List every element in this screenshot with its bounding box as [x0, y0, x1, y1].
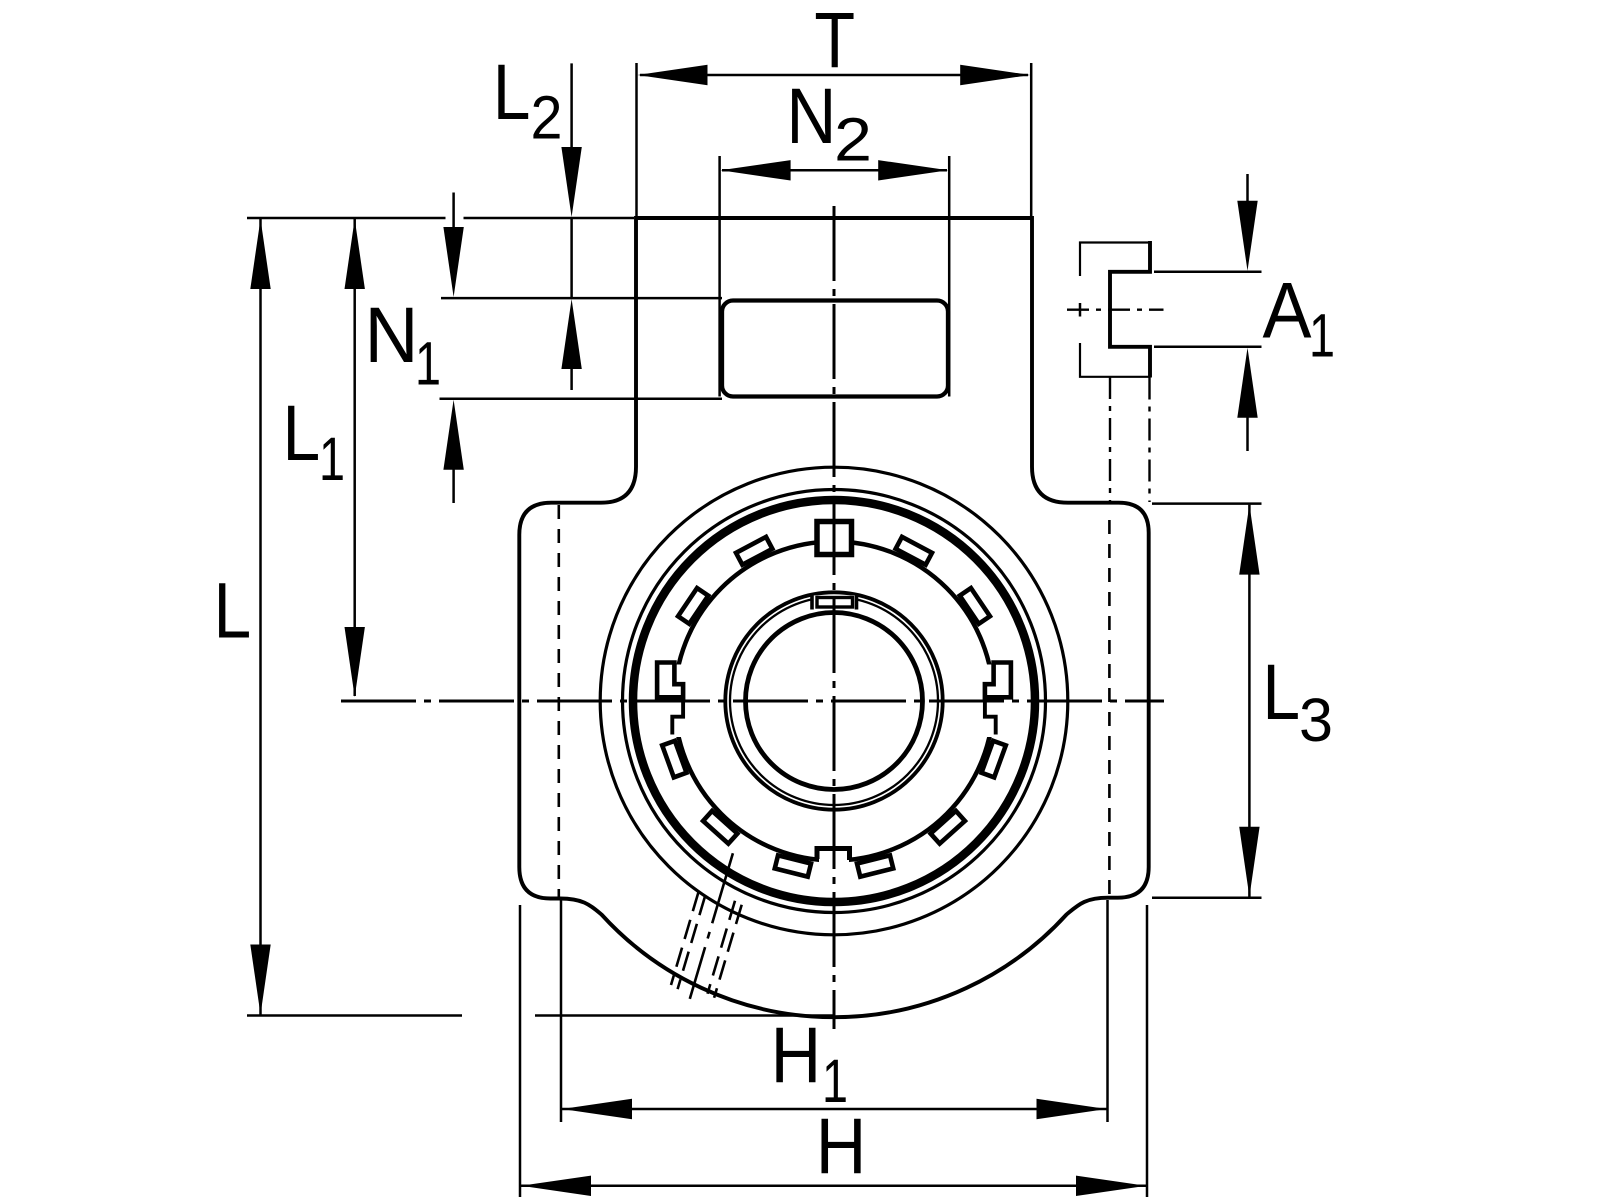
sleeve nut slot tick right: [855, 595, 859, 610]
dimension L: [250, 219, 270, 1015]
sleeve inner edge circle: [730, 597, 938, 805]
slot ledge line upper: [441, 297, 722, 300]
lock washer tooth 3 (118 deg): [736, 537, 772, 565]
locknut slot step left: [672, 697, 683, 734]
T-slot opening in top plate: [722, 301, 948, 397]
svg-text:2: 2: [834, 106, 872, 174]
adapter sleeve collar circle: [725, 592, 942, 809]
rib centerline vertical inner: [1109, 377, 1111, 502]
dimension A1: [1154, 174, 1262, 451]
hidden width line left: [557, 505, 560, 897]
guide rib cross-section thick tab: [1110, 241, 1150, 378]
slit centerline 3: [690, 853, 733, 999]
bearing outer ring (heavy): [633, 500, 1035, 902]
rib detail centerline cross tick: [1079, 303, 1082, 317]
svg-text:L: L: [493, 47, 531, 136]
locknut slot notch (bottom): [817, 849, 850, 861]
shaft bore circle: [746, 613, 923, 790]
rib detail centerline horizontal: [1067, 309, 1164, 311]
svg-text:L: L: [214, 565, 252, 654]
svg-text:N: N: [365, 290, 419, 379]
washer tab at right (3 o-clock): [985, 663, 1011, 698]
svg-text:H: H: [816, 1101, 867, 1190]
slit hidden line 1: [671, 892, 699, 985]
slit hidden line 5: [714, 905, 742, 998]
dimension T: [637, 63, 1032, 216]
sleeve nut slot box: [817, 598, 853, 608]
lock washer tooth 6 (228 deg): [703, 811, 737, 844]
dimension H: [520, 905, 1147, 1197]
svg-text:L: L: [1262, 647, 1300, 736]
lock washer tooth 9 (312 deg): [931, 811, 965, 844]
extension line bottom (L): [247, 1014, 835, 1017]
dimension N1: [443, 193, 463, 504]
slit hidden line 4: [708, 901, 736, 994]
lock washer tooth 8 (284 deg): [857, 855, 893, 876]
lock washer tooth 5 (200 deg): [662, 741, 686, 778]
svg-text:2: 2: [531, 84, 563, 152]
dimension L3: [1152, 504, 1262, 898]
dimension L2: [561, 63, 581, 390]
extension line top (L, L1): [247, 217, 634, 220]
dimension H1: [561, 900, 1108, 1122]
vertical centerline: [833, 206, 836, 1029]
lock washer tooth 7 (256 deg): [775, 855, 811, 876]
housing bore circle: [600, 467, 1068, 935]
seal ring circle: [623, 490, 1046, 913]
svg-text:3: 3: [1299, 686, 1333, 754]
washer tab at left (9 o-clock): [657, 663, 683, 698]
svg-text:1: 1: [1309, 302, 1335, 370]
rib centerline vertical outer: [1148, 378, 1150, 503]
sleeve nut slot tick left: [810, 595, 814, 610]
dimension L1: [345, 219, 365, 697]
guide rib cross-section (A1 tab detail) thin slot outline: [1080, 243, 1150, 377]
locknut slot step right: [985, 697, 996, 734]
dimension N2: [720, 156, 950, 397]
housing outline: [519, 218, 1148, 1017]
slit hidden line 2: [678, 896, 706, 989]
svg-text:N: N: [786, 71, 836, 160]
lock washer tooth 10 (340 deg): [981, 741, 1005, 778]
locknut feature erase patches: [652, 665, 1016, 867]
slot ledge line lower: [440, 397, 723, 400]
svg-text:A: A: [1263, 266, 1312, 355]
horizontal centerline: [341, 700, 1164, 703]
svg-text:1: 1: [415, 330, 441, 398]
svg-text:L: L: [283, 388, 321, 477]
lock washer tooth 1 (34 deg): [960, 588, 990, 624]
hidden width line right: [1108, 520, 1111, 897]
lock washer tab (top square): [817, 522, 852, 555]
svg-text:1: 1: [319, 425, 345, 493]
svg-text:H: H: [771, 1010, 822, 1099]
lock washer tooth 2 (62 deg): [896, 537, 932, 565]
lock washer tooth 4 (146 deg): [678, 588, 708, 624]
sleeve nut slot erase patch: [811, 595, 858, 608]
locknut body circle: [675, 542, 994, 861]
